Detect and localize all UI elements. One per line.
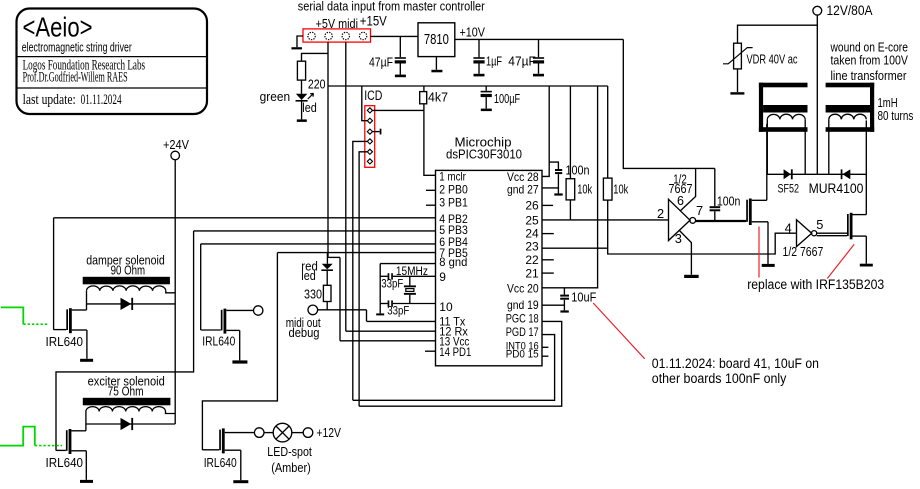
wire ICD pin1 to mclr net [373,109,425,111]
wire capacitor C1 to ground [399,64,401,75]
solenoid L2 core bar [83,398,171,406]
chip pin 26 stub [542,204,553,206]
svg-text:Vcc 20: Vcc 20 [507,282,539,296]
ground capacitor C2 [474,74,485,77]
svg-text:8 gnd: 8 gnd [439,255,467,269]
wire Vcc vertical [339,257,341,340]
svg-text:PGC 18: PGC 18 [506,312,539,326]
wire Q1 source to ground [86,330,88,359]
wire C6 to ground [563,300,565,311]
wire chip pin 23 to R4 net [542,247,608,249]
svg-text:PGD 17: PGD 17 [506,325,539,339]
capacitor C6 10uF [560,295,569,297]
svg-text:IRL640: IRL640 [46,334,84,349]
wire +5V rail to chip pin 20 Vcc [542,86,598,288]
svg-text:7810: 7810 [424,31,449,48]
ground VDR [730,92,744,94]
svg-text:10k: 10k [577,182,593,196]
svg-text:VDR 40V ac: VDR 40V ac [747,52,798,66]
resistor R1 220 [297,61,305,80]
wire PB5 route to Q4 gate [202,253,277,450]
svg-text:47µF: 47µF [369,56,393,70]
svg-text:26: 26 [525,199,539,213]
ground Q2 [80,480,93,483]
transistor Q1 IRL640 damper [66,309,68,330]
wire L2 left terminal [85,412,87,431]
svg-text:replace with IRF135B203: replace with IRF135B203 [747,277,884,292]
connector ICD red outline [365,106,375,168]
resistor R5 330 [323,285,331,301]
annotation red line to Q6 [827,244,854,278]
chip pin 15 stub [542,355,548,357]
wire C5 to pin27 node [557,174,559,193]
wire Q5 drain riser [766,124,768,201]
wire lamp right link [292,432,303,434]
LED D1 arrow [308,93,314,99]
connector ICD pin 4 [367,139,372,144]
regulator U2 7810 box [418,23,455,57]
waveform exciter input (green) [0,427,35,446]
ground Q1 [80,359,93,362]
diode D6 MUR4100 [841,169,843,179]
wire L1 left terminal [86,291,88,310]
wire ICD pin4 (PGD) [353,141,368,400]
op-amp U3 inverter B triangle [797,220,812,247]
ground 7810 [431,70,442,73]
svg-text:wound on E-core: wound on E-core [830,40,908,54]
svg-text:other boards 100nF only: other boards 100nF only [652,371,787,386]
connector J1 pin 2 [325,32,332,39]
chip pin 21 stub [542,272,554,274]
op-amp U1 dsPIC30F3010 outline [436,170,543,365]
ground capacitor C1 [395,75,406,78]
wire diode row [767,173,867,175]
ground capacitor C5 [554,193,562,195]
node midi out debug [308,305,318,315]
wire crystal ground vertical [379,264,381,314]
inductor L2 exciter coil [86,407,166,412]
wire chip pin 25 to inverter A input [542,219,669,221]
svg-text:4: 4 [785,220,792,235]
wire +5V rail to R3 [569,86,571,179]
svg-text:22: 22 [525,253,539,267]
connector ICD pin 5 [367,149,372,154]
wire chip pin 7 PB5 line [277,252,436,254]
wire chip pin 4 PB2 line [54,217,436,219]
ground crystal [376,313,384,315]
svg-text:IRL640: IRL640 [46,455,84,470]
wire +5V jog to Vcc vertical [328,256,340,258]
wire Q2 source to ground [85,451,87,480]
svg-text:33pF: 33pF [381,276,403,290]
wire red LED to R5 [326,271,328,286]
svg-text:green: green [260,89,291,104]
svg-text:PD0 15: PD0 15 [506,349,539,361]
wire capacitor C9 to output [714,211,716,220]
wire capacitor C3 to +10V rail [538,39,540,57]
op-amp U3 inverter B bubble [812,231,817,236]
wire ICD pin2 to +5V rail [362,86,368,121]
wire capacitor C1 to +15V line [399,36,401,57]
svg-text:Prof.Dr.Godfried-Willem RAES: Prof.Dr.Godfried-Willem RAES [23,70,128,86]
diode D3 flyback damper [121,298,132,310]
chip pin 22 stub [542,259,554,261]
wire L1 right terminal to +24V [166,291,175,293]
svg-text:MUR4100: MUR4100 [809,181,864,196]
svg-text:5: 5 [816,217,823,232]
svg-text:electromagnetic string driver: electromagnetic string driver [22,40,132,55]
transformer T1 core top bar [759,83,808,88]
svg-text:7: 7 [696,203,703,218]
transistor Q2 IRL640 exciter [66,430,68,451]
chip pin 14 stub [425,350,436,352]
svg-text:24: 24 [525,226,539,240]
wire chip pin 9 to C7 [393,275,436,277]
wire capacitor C4 to ground [485,97,487,109]
capacitor C2 1uF [473,57,484,59]
wire chip pin 17 PGD route [353,335,555,401]
transformer T1 core bottom bar [759,127,808,132]
svg-text:10k: 10k [613,182,629,196]
wire chip pin 19 gnd stub [542,304,564,306]
ground capacitor C6 [560,310,568,312]
svg-text:serial data input from master: serial data input from master controller [298,0,486,13]
svg-text:23: 23 [525,240,539,254]
wire connector pin1 to ground [297,36,303,47]
ground Q6 [860,264,873,267]
solenoid L1 core bar [83,277,170,285]
svg-text:2 PB0: 2 PB0 [439,182,468,196]
transistor Q3 IRL640 [221,310,223,331]
connector J1 pin 3 [342,32,349,39]
wire exciter flyback line [86,423,175,425]
wire R3 to pin25 line [569,200,571,220]
svg-text:80 turns: 80 turns [878,109,914,123]
svg-text:+24V: +24V [163,138,190,152]
transistor Q5 output [746,200,748,222]
resistor R3 10k [566,179,575,200]
wire U3 pin3 gnd diagonal [679,230,691,274]
transformer T1 core left bar [759,83,763,132]
svg-text:21: 21 [525,266,539,280]
wire U3 pin6 Vcc diagonal [681,168,696,210]
wire chip pin 12 Rx [346,330,436,332]
svg-text:1/2 7667: 1/2 7667 [783,245,824,259]
svg-text:line transformer: line transformer [831,69,908,83]
svg-text:led: led [301,268,316,283]
svg-text:330: 330 [304,288,322,302]
transformer T2 core top bar [826,83,875,88]
wire capacitor C2 to ground [478,64,480,74]
svg-text:47µF: 47µF [508,55,536,69]
wire chip pin 10 to C8 [393,303,436,305]
svg-text:3 PB1: 3 PB1 [439,196,468,210]
wire pin20 node to capacitor C6 [563,288,565,295]
svg-text:6: 6 [677,194,684,208]
wire Tx riser [366,310,368,322]
chip pin 2 stub [426,189,436,191]
node 12V/80A terminal [813,6,822,15]
resistor R2 4k7 [420,92,427,104]
wire L2 right terminal to +24V [166,412,176,414]
wire PB5 to red LED [326,253,328,264]
svg-text:debug: debug [289,325,320,340]
wire C8 to ground net [380,303,387,305]
wire U3 output to Q5 gate [696,220,747,222]
wire R5 to midi out line [326,302,328,310]
title block divider 2 [17,87,206,89]
wire capacitor C9 from Vcc line [714,168,716,206]
capacitor C4 100uF [481,91,492,93]
wire connector pin2 down (+5V feed) [327,42,329,257]
wire 7810 ground stub [435,57,437,70]
svg-text:(Amber): (Amber) [271,460,311,475]
wire chip pin 5 PB3 line [194,230,436,232]
varistor RV1 body [734,43,742,69]
wire Q4 source to ground [240,450,242,480]
chip pin 16 stub [542,346,548,348]
wire PB3 route to Q2 gate [56,231,194,451]
wire T2 left terminal [828,119,830,174]
svg-text:33pF: 33pF [387,304,409,318]
chip pin 24 stub [542,233,554,235]
svg-text:01.11.2024: board 41, 10uF on: 01.11.2024: board 41, 10uF on [652,356,819,371]
LED D2 red [322,264,333,270]
wire to chip pin 13 Vcc [340,340,436,342]
wire R1 to green LED [301,80,303,94]
svg-text:dsPIC30F3010: dsPIC30F3010 [446,147,522,162]
node Q3 drain test point [254,306,263,315]
capacitor C8 33pF [388,300,390,306]
transformer T2 core middle bar [826,105,870,113]
waveform damper input (green) [1,307,23,324]
wire ICD pin5 (PGC) [359,152,367,406]
title block frame [17,9,208,115]
ground connector [291,47,302,49]
svg-text:100µF: 100µF [494,92,521,106]
wire R4 down to inverter B input line [608,200,797,254]
transformer T2 core right bar [870,83,874,132]
wire damper flyback line [87,303,176,305]
annotation red line from C6 [593,303,645,359]
capacitor C3 47uF [533,57,544,59]
wire chip pin 27 gnd stub [542,187,558,189]
svg-text:10uF: 10uF [571,290,596,304]
svg-text:taken from 100V: taken from 100V [831,53,909,67]
wire jog to capacitor C5 [549,162,558,169]
wire Q5 source to ground [767,222,769,264]
wire capacitor C2 to +10V rail [478,39,480,57]
wire capacitor C4 to +5V rail [485,86,487,91]
svg-text:3: 3 [675,231,682,246]
capacitor C1 47uF [395,57,406,59]
connector ICD pin 2 [367,118,372,123]
svg-text:IRL640: IRL640 [204,455,237,470]
capacitor C9 100n [710,206,721,208]
svg-text:9: 9 [439,270,446,284]
svg-text:75 Ohm: 75 Ohm [108,384,144,398]
wire T1 right terminal [804,119,806,174]
svg-text:<Aeio>: <Aeio> [23,12,93,43]
wire connector pin3 down (midi feed) [345,42,347,331]
title block divider 1 [17,56,206,58]
inductor T1 winding [767,114,805,119]
inductor T2 winding [829,114,867,119]
wire midi out debug line [318,309,367,311]
svg-text:LED-spot: LED-spot [267,444,312,459]
wire +10V feed to driver U3 [623,39,715,168]
svg-text:10: 10 [439,300,453,314]
node lamp terminal right [303,428,313,438]
wire crystal X1 top lead [409,276,411,285]
transformer T1 core middle bar [763,105,807,113]
svg-text:4k7: 4k7 [428,90,448,104]
op-amp U3 inverter A bubble [690,218,696,224]
inductor L1 damper coil [87,286,166,291]
wire VDR to ground [737,69,739,92]
connector J1 pin 4 [359,32,366,39]
svg-text:SF52: SF52 [778,182,800,196]
lamp LED-spot [273,423,292,442]
wire +5V rail [328,85,608,87]
wire PB2 down to Q1 gate [53,218,55,330]
svg-text:90 Ohm: 90 Ohm [111,263,146,277]
svg-text:gnd 27: gnd 27 [507,182,539,196]
wire chip pin 18 PGC route [359,321,562,406]
svg-text:100n: 100n [717,195,741,209]
svg-text:led: led [302,100,317,115]
wire chip pin 11 Tx [367,320,437,322]
varistor RV1 diagonal [723,48,753,64]
ground Q3 [232,360,247,363]
wire R2 to chip pin1 mclr [424,104,436,176]
ground capacitor C3 [533,74,544,77]
wire PB4 down to Q3 gate [200,244,202,330]
wire lamp left link [264,432,273,434]
svg-text:ICD: ICD [364,88,382,103]
chip pin 3 stub [426,204,436,206]
wire T1 left terminal [766,119,768,174]
wire crystal X1 bottom lead [409,295,411,304]
wire Q6 drain riser [865,120,867,214]
wire +24V vertical [174,160,176,424]
svg-text:+10V: +10V [460,24,486,39]
svg-text:1µF: 1µF [486,55,502,69]
wire +5V rail to R2 [423,86,425,92]
wire jog to resistor R1 [302,53,329,61]
wire ICD pin3 stub [373,131,380,133]
wire green LED to ground [301,102,303,120]
ground tick ICD pin3 [380,129,382,135]
svg-text:1mH: 1mH [878,96,898,110]
annotation red line to Q5 [758,227,760,278]
connector ICD pin 6 [367,159,372,164]
wire chip pin 6 PB4 line [201,243,436,245]
transformer T2 core bottom bar [826,127,875,132]
ground capacitor C4 [481,109,492,112]
svg-text:12V/80A: 12V/80A [827,3,873,18]
svg-text:+15V: +15V [360,14,387,29]
wire capacitor C3 to ground [538,64,540,74]
diode D5 SF52 [784,169,791,179]
wire chip pin 8 gnd to crystal net [380,263,436,265]
capacitor C7 33pF [388,273,390,279]
wire 12V vertical [816,15,818,174]
capacitor C5 100n [555,169,562,171]
connector ICD pin 1 [367,108,372,113]
wire +5V rail to chip pin 28 Vcc [542,86,549,176]
svg-text:100n: 100n [566,164,590,178]
wire 12V to VDR [738,25,818,43]
svg-text:14 PD1: 14 PD1 [439,345,471,359]
node +24V terminal [171,151,180,160]
wire +5V rail to R4 [607,86,609,178]
wire U3B output to Q6 gate [817,232,847,234]
transistor Q6 output [847,214,849,236]
connector J1 red outline [303,29,371,42]
diode D4 flyback exciter [121,418,132,430]
svg-text:220: 220 [308,78,326,92]
svg-text:IRL640: IRL640 [202,333,235,348]
wire +10V rail [455,38,624,40]
ground Q5 [762,264,775,267]
svg-text:+12V: +12V [316,425,341,440]
LED D1 green [296,94,308,100]
resistor R4 10k [603,178,612,200]
ground green LED [297,119,307,122]
connector ICD pin 3 [367,129,372,134]
ground U3 pin3 [684,275,699,278]
crystal X1 15MHz [404,285,416,287]
node lamp terminal left [254,428,264,438]
transistor Q4 IRL640 LED-spot [219,430,221,451]
op-amp U3 inverter A triangle [669,199,691,240]
svg-text:2: 2 [657,206,664,221]
svg-text:last update: 01.11.2024: last update: 01.11.2024 [23,92,122,108]
wire C7 to ground net [380,275,387,277]
ground Q4 [233,480,248,483]
wire Q3 source to ground [239,330,241,360]
wire Q6 source to ground [865,236,867,264]
connector J1 pin 1 [308,32,315,39]
wire +15V connector to 7810 input [371,35,419,37]
svg-text:gnd 19: gnd 19 [507,298,539,312]
